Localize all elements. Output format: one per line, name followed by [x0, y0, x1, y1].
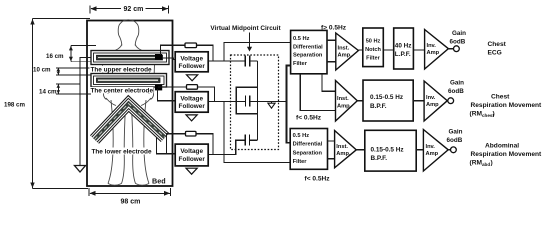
- svg-text:Filter: Filter: [293, 61, 308, 67]
- ground triangle VF2: [186, 115, 197, 121]
- filter1 to amp1 wires: [327, 39, 336, 41]
- svg-text:50 Hz: 50 Hz: [366, 39, 381, 45]
- svg-text:B.P.F.: B.P.F.: [370, 103, 387, 110]
- svg-text:0.15-0.5 Hz: 0.15-0.5 Hz: [371, 146, 404, 153]
- inst amp 3: [335, 131, 357, 168]
- bpf2 to inv2: [413, 100, 424, 102]
- svg-text:Differential: Differential: [293, 142, 323, 148]
- output bubble 1: [448, 48, 453, 50]
- svg-text:Amp.: Amp.: [338, 53, 353, 59]
- svg-text:ECG: ECG: [488, 49, 502, 56]
- svg-text:Abdominal: Abdominal: [485, 143, 519, 150]
- loop around C2: [236, 87, 257, 101]
- resistor R2: [187, 85, 198, 90]
- dimension 198 cm left: [33, 19, 91, 189]
- svg-text:Chest: Chest: [491, 94, 510, 101]
- svg-text:f< 0.5Hz: f< 0.5Hz: [305, 176, 331, 183]
- ground wire from upper electrode left end: [80, 58, 91, 166]
- filter3 box: [290, 129, 327, 170]
- filter1 low freq outputs down to row2: [322, 74, 336, 91]
- svg-text:Gain: Gain: [450, 80, 464, 87]
- lpf box: [394, 28, 414, 69]
- svg-text:Voltage: Voltage: [180, 55, 203, 62]
- inv amp 2: [424, 81, 447, 121]
- VF1 output wire: [208, 60, 245, 62]
- ground triangle VF3: [186, 168, 197, 174]
- svg-text:The center electrode: The center electrode: [91, 88, 154, 95]
- svg-text:6odB: 6odB: [447, 137, 463, 144]
- wire electrode2 to VF2: [158, 89, 176, 101]
- human figure: [103, 20, 155, 185]
- svg-text:198 cm: 198 cm: [4, 102, 25, 109]
- riser VF2 out down to filter3: [224, 102, 291, 163]
- output bubble 2: [448, 98, 454, 104]
- VF2 box: [175, 92, 208, 113]
- svg-text:Amp.: Amp.: [336, 151, 351, 157]
- amp1 to notch: [358, 49, 363, 51]
- svg-text:The upper electrode: The upper electrode: [91, 67, 153, 74]
- svg-text:L.P.F.: L.P.F.: [395, 51, 411, 58]
- svg-text:Follower: Follower: [179, 156, 206, 163]
- svg-text:92 cm: 92 cm: [124, 6, 144, 13]
- VF2 output wire: [208, 101, 245, 103]
- svg-text:98 cm: 98 cm: [121, 199, 141, 206]
- arrow into VMC: [249, 33, 251, 48]
- lower electrode chevron: [95, 104, 166, 140]
- svg-text:40 Hz: 40 Hz: [395, 43, 412, 50]
- svg-text:0.15-0.5 Hz: 0.15-0.5 Hz: [370, 94, 403, 101]
- svg-text:Separation: Separation: [293, 53, 323, 59]
- VF3 output wire: [208, 140, 245, 154]
- dimension 98 cm bottom: [89, 188, 171, 196]
- ground triangle VF1: [187, 75, 198, 81]
- svg-text:0.5 Hz: 0.5 Hz: [293, 133, 310, 139]
- capacitor C2: [246, 96, 250, 107]
- filter1 box: [291, 30, 327, 73]
- dimension 92 cm top: [90, 6, 169, 14]
- svg-text:(RM: (RM: [470, 111, 483, 118]
- svg-text:Inv.: Inv.: [427, 43, 437, 49]
- ground triangle left: [75, 166, 86, 173]
- lpf to inv1: [413, 49, 424, 51]
- resistor R3: [186, 131, 197, 136]
- svg-text:(RM: (RM: [470, 160, 483, 167]
- svg-text:Virtual Midpoint Circuit: Virtual Midpoint Circuit: [210, 25, 281, 32]
- upper electrode: [91, 51, 169, 65]
- svg-text:Amp.: Amp.: [337, 103, 352, 109]
- inst amp 1: [336, 33, 359, 70]
- bootstrap wire VF2: [158, 87, 215, 102]
- svg-text:Separation: Separation: [293, 150, 323, 156]
- svg-text:14 cm: 14 cm: [39, 88, 57, 95]
- svg-text:f< 0.5Hz: f< 0.5Hz: [296, 114, 322, 121]
- amp2 to bpf2: [357, 100, 363, 102]
- filter3 to amp3 wires: [328, 140, 335, 142]
- inv amp 3: [423, 130, 448, 172]
- midpoint bus: [257, 61, 259, 140]
- svg-text:16 cm: 16 cm: [46, 53, 64, 60]
- svg-text:Filter: Filter: [293, 159, 308, 165]
- resistor R1: [185, 43, 197, 48]
- ground triangle midpoint: [271, 102, 273, 104]
- svg-text:Amp: Amp: [426, 102, 439, 108]
- svg-text:): ): [493, 111, 495, 118]
- capacitor C1: [245, 56, 249, 67]
- svg-text:Inst.: Inst.: [338, 45, 350, 51]
- inst amp 2: [336, 81, 358, 122]
- svg-text:abd: abd: [482, 162, 490, 167]
- svg-text:Voltage: Voltage: [180, 95, 203, 102]
- svg-text:Respiration Movement: Respiration Movement: [471, 102, 543, 109]
- svg-text:6odB: 6odB: [448, 88, 464, 95]
- bpf3 box: [365, 130, 416, 171]
- notch filter box: [363, 28, 384, 67]
- inv amp 1: [425, 30, 449, 70]
- amp3 to bpf3: [356, 149, 365, 151]
- svg-text:Gain: Gain: [452, 30, 466, 37]
- bootstrap wire VF3: [167, 134, 214, 155]
- svg-text:B.P.F.: B.P.F.: [371, 155, 388, 162]
- svg-text:Differential: Differential: [293, 44, 323, 50]
- bpf3 to inv3: [416, 149, 423, 151]
- bpf2 box: [363, 80, 413, 121]
- svg-text:Respiration Movement: Respiration Movement: [471, 151, 543, 158]
- svg-text:Filter: Filter: [366, 55, 380, 61]
- center electrode: [91, 74, 167, 91]
- riser VF1 out to filter1: [224, 43, 291, 62]
- VF3 box: [175, 144, 208, 166]
- svg-text:0.5 Hz: 0.5 Hz: [293, 36, 310, 42]
- svg-text:Inv.: Inv.: [426, 95, 436, 101]
- svg-text:Gain: Gain: [449, 129, 463, 136]
- svg-text:6odB: 6odB: [450, 38, 466, 45]
- VMC dashed box: [231, 55, 279, 150]
- notch to lpf: [383, 49, 393, 51]
- output bubble 3: [448, 149, 451, 151]
- bootstrap wire VF1: [161, 45, 214, 61]
- wire electrode1 to VF1: [162, 58, 175, 60]
- svg-text:Amp: Amp: [426, 151, 439, 157]
- svg-text:Follower: Follower: [179, 103, 206, 110]
- svg-text:10 cm: 10 cm: [33, 67, 51, 74]
- svg-text:Follower: Follower: [179, 63, 206, 70]
- svg-text:Chest: Chest: [488, 41, 507, 48]
- svg-text:Inst.: Inst.: [337, 96, 349, 102]
- capacitor C3: [245, 135, 249, 146]
- bed: [87, 21, 173, 187]
- midpoint vertical to filters: [287, 66, 291, 143]
- svg-text:): ): [491, 160, 493, 167]
- svg-text:Voltage: Voltage: [180, 148, 203, 155]
- svg-text:Inst.: Inst.: [336, 144, 348, 150]
- VF1 box: [175, 52, 208, 72]
- svg-text:Notch: Notch: [365, 47, 381, 53]
- svg-text:Inv.: Inv.: [426, 144, 436, 150]
- svg-text:The lower electrode: The lower electrode: [92, 149, 152, 156]
- wire electrode3 to VF3: [157, 138, 176, 154]
- svg-text:Bed: Bed: [152, 177, 166, 186]
- svg-text:Amp: Amp: [427, 50, 440, 56]
